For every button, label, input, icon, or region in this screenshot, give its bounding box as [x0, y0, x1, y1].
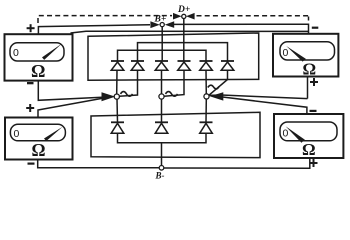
dashed wire from top-left meter plus to D+ — [38, 16, 172, 23]
wire diode D4 anode jog to phase node 2 — [164, 70, 184, 96]
M2 plus label — [26, 107, 34, 109]
M4 needle — [286, 126, 305, 143]
negative diode bus — [118, 133, 207, 143]
wire D+ node down to exciter diode bus — [183, 19, 185, 61]
M2 needle — [44, 127, 63, 141]
phase winding symbol 3 — [208, 85, 219, 89]
wire phase node 2 down to diode D8 — [161, 99, 163, 122]
M1 needle — [42, 44, 62, 60]
svg-text:0: 0 — [14, 128, 20, 140]
ohmmeter M2 bottom-left box — [5, 118, 73, 160]
M4 scale window — [280, 122, 337, 141]
wire diode D2 anode jog to phase node 1 — [119, 70, 138, 96]
diode D9 — [200, 122, 213, 133]
svg-text:0: 0 — [13, 47, 19, 59]
diode D3 — [155, 61, 168, 70]
diode D1 — [111, 61, 124, 70]
node B+ — [160, 23, 164, 27]
wire diode D1 anode to phase node 1 — [116, 70, 118, 94]
ohmmeter M4 bottom-right box — [274, 114, 343, 158]
svg-text:0: 0 — [283, 128, 289, 140]
wire phase node 3 down to diode D9 — [205, 99, 207, 122]
svg-text:Ω: Ω — [303, 60, 317, 79]
node B- — [159, 166, 164, 171]
D+ exciter diode bus — [138, 43, 228, 61]
arrowhead into B+ from right — [165, 21, 174, 28]
wire diode D3 anode to phase node 2 — [161, 70, 163, 94]
M3 needle — [286, 46, 306, 62]
wire top-left meter minus to phase node 1 — [38, 81, 102, 101]
M4 minus label — [310, 110, 317, 112]
diode D2 — [131, 61, 144, 70]
M4 plus label — [310, 162, 318, 164]
arrowhead into D+ from right — [186, 13, 195, 20]
wire top-left meter corner to top-right meter lead — [71, 31, 309, 33]
wire B+ to top-right meter minus — [174, 24, 309, 34]
M2 scale window — [10, 124, 65, 141]
rectifier upper block outline — [88, 33, 259, 80]
node D+ — [182, 14, 186, 18]
wire diode D6 anode slant to phase node 3 — [209, 70, 228, 95]
wire B+ node down to positive diode bus — [161, 27, 163, 62]
svg-text:Ω: Ω — [32, 140, 46, 160]
M3 scale window — [280, 42, 335, 60]
svg-text:B-: B- — [155, 171, 165, 181]
diode D4 — [178, 61, 191, 70]
svg-text:B+: B+ — [154, 15, 167, 25]
phase winding symbol 2 — [166, 92, 178, 97]
wire bottom-right meter minus to phase node 3 — [222, 97, 307, 114]
phase node 1 — [114, 94, 119, 99]
M3 plus label — [310, 81, 318, 83]
wire top-right meter plus lead to phase node 3 — [307, 77, 309, 99]
rectifier lower block outline — [91, 112, 260, 157]
diode D8 — [155, 122, 168, 133]
arrowhead into D+ from left — [173, 13, 182, 20]
arrowhead into B+ from left — [150, 21, 159, 28]
arrowhead into phase node 3 — [210, 92, 224, 100]
M1 scale window — [10, 43, 64, 61]
phase node 2 — [159, 94, 164, 99]
wire diode D5 anode to phase node 3 — [205, 70, 207, 94]
ohmmeter M3 top-right box — [273, 34, 338, 77]
arrowhead into phase node 1 — [102, 92, 116, 101]
ohmmeter M1 top-left box — [5, 34, 73, 80]
diode D7 — [111, 122, 124, 133]
phase winding symbol 1 — [121, 92, 133, 97]
wire phase node 1 down to diode D7 — [116, 99, 119, 122]
wire top-left meter plus to B+ — [38, 25, 150, 34]
wire bus down to B- node — [161, 143, 163, 166]
B- wire bottom-left meter to bottom-right meter — [38, 160, 159, 168]
M1 plus label — [27, 27, 35, 29]
phase node 3 — [204, 94, 209, 99]
dashed wire from D+ to top-right meter minus — [197, 15, 309, 17]
svg-text:Ω: Ω — [31, 61, 45, 81]
svg-text:D+: D+ — [177, 5, 190, 15]
svg-text:Ω: Ω — [302, 140, 316, 159]
M3 minus label — [312, 27, 319, 29]
M2 minus label — [28, 163, 35, 165]
svg-text:0: 0 — [283, 47, 289, 59]
diode D6 — [221, 61, 234, 70]
M1 minus label — [27, 82, 34, 84]
B+ positive diode bus — [118, 50, 207, 61]
diode D5 — [200, 61, 213, 70]
wire bottom-left meter plus to phase node 1 — [38, 98, 104, 118]
